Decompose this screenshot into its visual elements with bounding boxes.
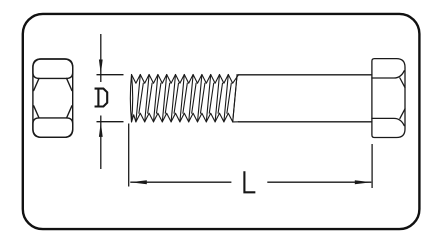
label L bbox=[244, 172, 254, 192]
hex nut outline bbox=[33, 59, 73, 137]
bolt head chamfer edge bottom-right bbox=[400, 109, 405, 119]
bolt head chamfer edge top-right bbox=[400, 78, 405, 88]
hex nut chamfer edge bottom-left bbox=[34, 106, 39, 118]
shank top edge bbox=[239, 74, 372, 76]
dimension L line left segment bbox=[130, 181, 231, 183]
label D bbox=[96, 89, 108, 107]
shank bottom edge bbox=[239, 121, 372, 123]
dimension L line right segment bbox=[267, 181, 371, 183]
thread runout line bbox=[233, 75, 237, 122]
hex nut top facet band bbox=[33, 59, 73, 78]
arrowhead D up bbox=[99, 122, 103, 137]
dimension D lower extension tick bbox=[97, 121, 124, 123]
arrowhead L left bbox=[130, 180, 147, 184]
thread end chamfer (left tip of bolt) bbox=[130, 75, 132, 122]
dimension D upper extension tick bbox=[97, 74, 124, 76]
thread crest helix lines bbox=[136, 75, 237, 122]
bolt head outline bbox=[372, 59, 405, 138]
thread crest top zigzag bbox=[132, 75, 239, 84]
thread crest bottom zigzag bbox=[132, 113, 239, 122]
dimension D upper arrow line bbox=[100, 34, 102, 82]
bolt head top division line bbox=[372, 71, 404, 78]
dimension L right extension line bbox=[371, 144, 373, 188]
arrowhead D down bbox=[99, 60, 103, 75]
hex nut chamfer edge bottom-right bbox=[67, 106, 72, 118]
thread root helix lines bbox=[139, 83, 231, 113]
hex nut chamfer edge top-left bbox=[34, 78, 39, 90]
hex nut chamfer edge top-right bbox=[67, 78, 72, 90]
bolt head bottom division line bbox=[372, 118, 404, 125]
hex nut bottom facet band bbox=[33, 118, 73, 137]
dimension L left extension line bbox=[128, 124, 130, 187]
dimension D lower arrow line bbox=[100, 116, 102, 170]
arrowhead L right bbox=[355, 180, 372, 184]
